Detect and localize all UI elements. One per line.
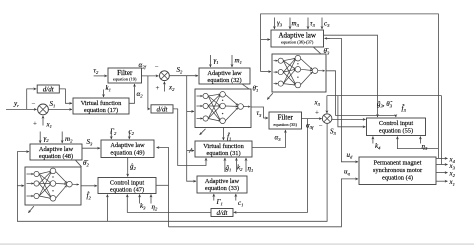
svg-text:−: − [32,100,36,108]
wire PMSM output x1 [436,180,448,182]
wire x3 feedback horizontal [327,95,442,97]
wire S3 to Control (55) left [332,118,366,120]
block d/dt (top-left differentiator) [37,85,59,94]
wire eta1 stub into (31) [245,158,247,172]
wire PMSM output x3 [436,164,448,166]
block Adaptive law equation (48) [30,144,82,160]
wire theta-bar-3 diagonal (36)-(37) to NN3 [314,47,321,53]
block Adaptive law equation (32) [199,68,250,84]
summing junction S1 [38,104,49,115]
svg-text:d/dt: d/dt [157,106,169,114]
svg-text:Control input: Control input [110,179,144,186]
svg-text:+: + [33,120,37,128]
wire NN3 adaptation diagonal arrow [267,93,273,99]
wire k3 stub into (47) [139,195,141,204]
wire ud from (36)-(37) right down into PMSM [326,38,358,161]
wire c3 stub into (36)-(37) [321,18,323,30]
svg-text:+: + [156,84,160,92]
wire d/dt 2 output to (31) bottom [173,109,206,166]
wire yr input into S1 [6,108,37,110]
block Adaptive law equation (36)-(37) [271,30,324,47]
wire S2 tap into Virtual function (31) [187,150,194,152]
svg-text:Virtual function: Virtual function [81,100,122,107]
wire top feedback into NN3 [261,71,271,73]
wire (47) output right [156,184,169,186]
block d/dt (second differentiator) [151,105,173,114]
wire k4 stub into Control (55) [372,137,374,144]
block Filter equation (19) [108,68,142,83]
wire theta-bar-2 diagonal (48) to NN2 [76,160,82,167]
wire NN1 adaptation diagonal arrow [200,129,206,135]
block Permanent magnet synchronous motor equation (4) [359,157,436,185]
wire NN3 output f3-hat to Control (55) top [326,71,396,117]
NN2 internal network [27,168,79,201]
wire x2 stub into S2 [163,82,165,92]
svg-text:Permanent magnet: Permanent magnet [374,159,422,166]
wire gamma2 stub into (48) [39,132,41,144]
wire eta2 stub into (47) [150,195,152,204]
block Virtual function equation (17) [73,98,129,114]
svg-text:equation (48): equation (48) [39,153,73,160]
svg-text:equation (31): equation (31) [206,150,240,157]
block Adaptive law equation (49) [101,140,154,158]
wire NN1 f1-hat down into (31) [222,128,224,141]
wire top feedback x4 [261,14,439,159]
block Control input equation (47) [98,178,156,194]
svg-text:Control input: Control input [379,120,413,127]
svg-text:equation (19): equation (19) [113,77,137,82]
wire S2 vertical distribution [187,76,196,182]
wire x3 feedback vertical to output [441,96,443,165]
svg-text:equation (55): equation (55) [379,127,413,134]
wire tau3 stub into (36)-(37) [307,18,309,30]
svg-text:d/dt: d/dt [43,86,55,94]
wire NN2 adaptation diagonal arrow [28,206,34,213]
summing junction S3 [322,114,332,124]
svg-text:equation (49): equation (49) [110,149,144,156]
wire (48) S3 output to (49) [82,147,100,149]
wire Filter (35) output alpha3f to S3 [301,118,321,120]
wire S1 to Virtual function (17) [48,108,72,110]
block d/dt (third differentiator) [211,209,233,218]
svg-text:equation (33): equation (33) [205,185,239,192]
svg-text:Virtual function: Virtual function [203,143,244,150]
wire alpha2f branch down into d/dt 2 [148,76,150,109]
wire g1-hat stub into (31) [224,158,226,172]
wire alpha3f tap down to d/dt 3 line [234,119,308,213]
svg-text:equation (32): equation (32) [207,77,241,84]
svg-text:equation (17): equation (17) [84,107,118,114]
wire top feedback into Adaptive law (36)-(37) [261,39,270,41]
svg-text:−: − [319,122,323,130]
wire m3 stub into (36)-(37) [289,18,291,30]
svg-text:d/dt: d/dt [217,209,229,217]
wire S3 tap up into Control (47) bottom [106,195,108,222]
wire NN2 output f2-hat into (47) [81,185,97,187]
block Virtual function equation (31) [195,141,252,157]
summing junction S2 [160,71,170,81]
svg-text:Filter: Filter [117,69,133,77]
wire Filter (19) output alpha2f to S2 [142,75,159,77]
wire NN1 output tau3 to Filter (35) [251,107,268,118]
svg-text:Filter: Filter [278,114,294,122]
wire S3 junction output down and to left column [17,123,327,221]
svg-text:Adaptive law: Adaptive law [39,146,74,153]
svg-text:+: + [315,109,319,117]
NN3 internal network [274,55,325,87]
arrowhead into (36)-(37) right edge [325,37,331,39]
NN1 internal network [197,92,251,124]
wire c1 stub into (33) [235,194,237,201]
wire d/dt to Virtual function (17) [59,89,72,103]
wire branch yr to d/dt [27,89,37,110]
block Adaptive law equation (33) [197,176,247,193]
block Filter equation (35) [269,112,302,129]
wire uq to PMSM [169,179,359,227]
wire k2 stub into (31) [235,158,237,172]
neural network box NN1 [195,89,251,128]
page bottom edge [0,243,474,244]
wire k1 stub into Virtual function (17) [103,90,105,98]
wire Gamma1 stub into (33) [213,194,215,201]
wire x4 tap into Control (55) bottom [397,137,438,149]
wire c2 stub into (49) [128,131,130,139]
svg-text:Adaptive law: Adaptive law [110,142,145,149]
block Control input equation (55) [367,118,426,136]
vector slash on (31) input [189,148,192,153]
wire d/dt 3 output to Control (47) bottom [127,195,211,213]
wire (31) output alpha3 up into Filter (35) [252,130,285,148]
wire theta-bar-1 diagonal (32) to NN1 [243,84,249,89]
svg-text:Adaptive law: Adaptive law [205,178,240,185]
wire x3 down into S3 [326,96,328,114]
neural network box NN3 [272,54,326,92]
neural network box NN2 [25,167,81,205]
svg-text:equation (36)-(37): equation (36)-(37) [281,40,314,45]
wire (36)-(37) right to Control (55) top ghat3 thetahat3 [324,35,378,117]
svg-text:Adaptive law: Adaptive law [207,70,242,77]
wire x1 stub into S1 [42,116,44,126]
wire PMSM output x2 [436,172,448,174]
wire S2 tap into NN1 [187,110,194,112]
wire x3 tap down into Control (55) left [338,96,366,127]
svg-text:equation (47): equation (47) [110,186,144,193]
wire S2 to Adaptive law (32) [169,75,198,77]
wire eta3 stub into Control (55) [419,137,421,144]
wire m1 stub into (32) [231,55,233,67]
wire S3 tap into NN2 [17,185,24,187]
wire m2 stub into (48) [61,132,63,144]
svg-text:−: − [155,63,159,71]
wire gamma3 stub into (36)-(37) [273,18,275,30]
wire gamma1 stub into (32) [209,55,211,67]
wire g2-hat from (49) down into (47) [127,158,129,177]
wire Gamma2 stub into (49) [110,131,112,139]
wire tau2 input into Filter (19) [94,75,107,77]
svg-text:equation (35): equation (35) [273,122,297,127]
svg-text:synchronous motor: synchronous motor [373,167,423,174]
wire PMSM output x4 [436,157,448,159]
wire uq feedback up into (49) right [157,148,169,227]
svg-text:Adaptive law: Adaptive law [278,31,316,39]
wire alpha2 from (17) up into Filter (19) [129,84,135,103]
svg-text:equation (4): equation (4) [382,175,413,182]
